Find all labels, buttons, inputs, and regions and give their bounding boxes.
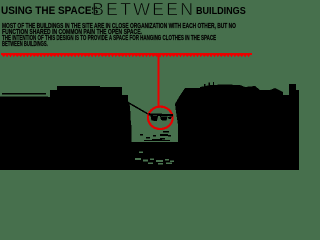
paragraph line 2 xyxy=(2,27,142,36)
right small blob notch fix xyxy=(283,95,299,125)
green speckle patch lower middle xyxy=(135,152,174,165)
clothes 2 xyxy=(160,116,168,120)
bottom black band xyxy=(0,125,299,170)
left slope wire to clothesline xyxy=(127,101,148,115)
clothesline bar xyxy=(149,113,174,116)
paragraph line 1 xyxy=(2,21,236,30)
red sawtooth horizontal line xyxy=(1,53,252,55)
illustration svg xyxy=(0,0,299,170)
paragraph line 3 xyxy=(2,33,216,42)
clothes 1 xyxy=(151,116,159,121)
gap speckles xyxy=(140,131,171,141)
gap green notch below circle xyxy=(132,118,179,142)
title: USING THE SPACES xyxy=(1,5,98,17)
antenna spikes right mass xyxy=(204,82,214,87)
left building mass xyxy=(0,86,131,125)
sawtooth teeth xyxy=(2,55,250,57)
title: BUILDINGS xyxy=(196,6,246,17)
right building mass xyxy=(175,84,299,125)
title: BETWEEN xyxy=(92,0,195,20)
clothes 3 xyxy=(168,117,172,119)
red circle xyxy=(148,107,173,129)
paragraph line 4 xyxy=(2,39,48,48)
red vertical line xyxy=(158,55,160,107)
left building roofline thin xyxy=(2,93,46,95)
